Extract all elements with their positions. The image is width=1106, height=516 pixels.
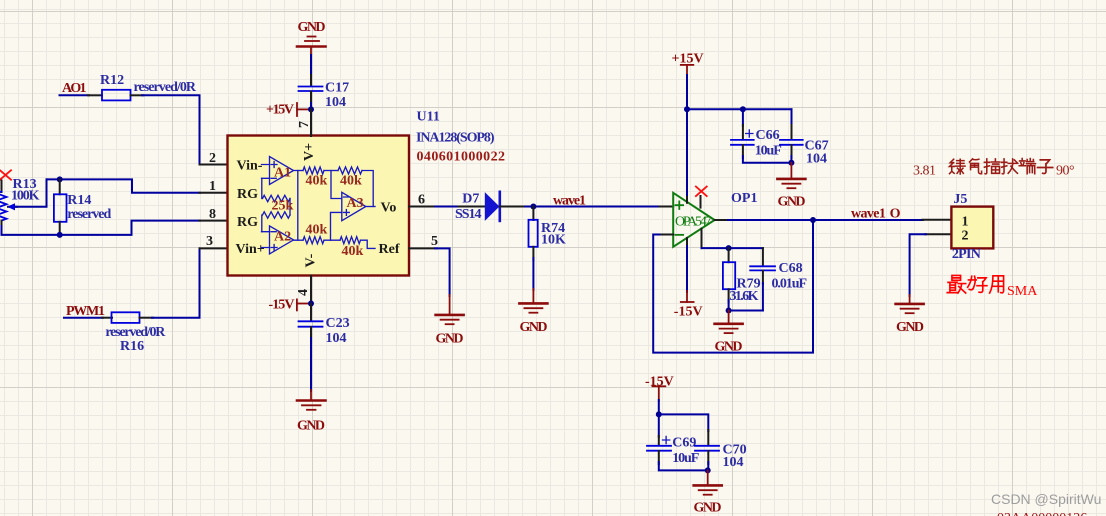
svg-text:104: 104 [806, 152, 827, 167]
resistor 40k (bottom-left) [298, 223, 328, 244]
wire bottom row to pin 8 [2, 221, 201, 235]
svg-text:C17: C17 [325, 81, 349, 96]
svg-text:A3: A3 [347, 196, 364, 211]
junction node pin7/+15V [308, 106, 314, 112]
svg-text:C69: C69 [672, 435, 696, 450]
wire pin6 to D7 [435, 206, 460, 208]
svg-text:R16: R16 [120, 339, 144, 354]
wire OP1 output to J5 [728, 219, 923, 221]
junction R79 bottom [726, 308, 732, 314]
wire between top 40k pair [324, 170, 338, 172]
wire wiper to top row [16, 179, 47, 206]
resistor R12 reserved/0R [88, 73, 197, 100]
svg-text:OP1: OP1 [731, 191, 757, 206]
wire bottom 40k to Ref [361, 240, 376, 248]
no-ERC marker (R13 top) [0, 170, 11, 179]
capacitor C68 0.01uF [750, 248, 807, 310]
svg-text:PWM1: PWM1 [66, 304, 105, 319]
capacitor C17 [299, 75, 350, 110]
svg-text:SMA: SMA [1007, 284, 1038, 299]
svg-text:3: 3 [206, 234, 213, 249]
junction R14 top [57, 176, 63, 182]
svg-text:C23: C23 [326, 316, 350, 331]
svg-text:SS14: SS14 [455, 207, 482, 222]
resistor R79 31.6K [723, 248, 761, 304]
junction R14 bottom [57, 232, 63, 238]
resistor R74 10K [529, 207, 567, 261]
svg-text:GND: GND [778, 194, 806, 209]
wire R12 to U11 pin 2 [142, 95, 200, 164]
pin 1 stub [200, 192, 228, 194]
svg-text:104: 104 [326, 331, 347, 346]
wire A3 plus to lower row [331, 212, 342, 240]
wire PWM1 [64, 317, 103, 319]
resistor 40k (bottom-right) [340, 237, 364, 259]
wire AO1 [60, 94, 90, 96]
svg-text:-15V: -15V [269, 298, 295, 313]
svg-text:104: 104 [723, 455, 744, 470]
wire R79/C68 bottom row [729, 300, 763, 311]
junction C70 bottom [705, 467, 711, 473]
power port -15V (at U11 pin 4) [269, 298, 309, 313]
capacitor C70 104 [695, 430, 747, 470]
pin 5 stub (right) [409, 247, 437, 249]
svg-text:CSDN @SpiritWu: CSDN @SpiritWu [991, 491, 1101, 507]
wire GND to C17 [310, 55, 312, 76]
wire OP1 lower pin to node row [702, 247, 763, 249]
svg-text:2PIN: 2PIN [952, 247, 981, 262]
svg-text:Vin-: Vin- [237, 158, 263, 173]
note CJK glyphs: 最好用 [947, 275, 1003, 293]
wire top-right 40k to Vo node [362, 171, 373, 207]
junction wave1 node [530, 204, 536, 210]
junction R79 top [726, 245, 732, 251]
svg-text:A1: A1 [274, 166, 291, 181]
wire cap bottoms [743, 156, 792, 163]
wire -15V to C69 node [658, 400, 660, 414]
pin 4 stub (bottom) [310, 276, 312, 304]
svg-text:R14: R14 [67, 193, 91, 208]
capacitor C66 10uF [731, 109, 782, 158]
wire J5 pin2 to ground [910, 234, 926, 296]
ground (below C69/C70) [694, 470, 722, 515]
junction C69 top [656, 411, 662, 417]
wire top row to pin 1 [47, 179, 201, 192]
resistor R14 reserved [54, 179, 112, 235]
svg-text:104: 104 [325, 95, 346, 110]
svg-text:Ref: Ref [379, 242, 400, 257]
svg-text:C66: C66 [756, 128, 780, 143]
junction +15V node [684, 106, 690, 112]
svg-text:D7: D7 [462, 192, 479, 207]
svg-text:25k: 25k [272, 199, 294, 214]
svg-text:10uF: 10uF [672, 451, 699, 466]
wire R16 to U11 pin 3 [152, 248, 200, 317]
svg-text:+15V: +15V [266, 102, 294, 117]
connector body J5 2PIN [922, 192, 993, 262]
svg-text:40k: 40k [342, 244, 364, 259]
capacitor C67 104 [780, 109, 829, 166]
op-amp A1 [262, 157, 294, 185]
ground (below R79) [715, 311, 743, 355]
ground (below C23) [297, 390, 326, 433]
svg-text:1: 1 [209, 179, 216, 194]
power port +15V (above OP1) [672, 52, 704, 76]
power port -15V (above C69) [645, 375, 674, 402]
junction node pin4/-15V [308, 301, 314, 307]
svg-text:40k: 40k [306, 223, 328, 238]
svg-text:2: 2 [209, 151, 216, 166]
wire R74 to ground [532, 258, 534, 290]
junction C66 top [740, 106, 746, 112]
svg-text:wave1: wave1 [553, 193, 586, 208]
svg-text:R12: R12 [100, 73, 124, 88]
pin 7 stub (top) [310, 109, 312, 136]
svg-text:2: 2 [962, 229, 969, 244]
svg-text:3.81: 3.81 [913, 164, 936, 179]
svg-text:OPA547: OPA547 [675, 215, 712, 230]
svg-text:GND: GND [436, 332, 464, 347]
svg-text:40k: 40k [306, 174, 328, 189]
svg-text:U11: U11 [417, 110, 440, 125]
resistor 40k (top-left) [298, 167, 328, 189]
wire cap bottoms to gnd node [659, 462, 709, 470]
junction feedback/output [810, 217, 816, 223]
wire between bottom 40k pair [324, 239, 340, 241]
svg-text:40k: 40k [340, 174, 362, 189]
wire +15V down to OP1 [686, 75, 688, 195]
svg-text:J5: J5 [953, 192, 967, 207]
resistor R16 reserved/0R [102, 312, 166, 354]
svg-text:1: 1 [962, 215, 969, 230]
ground (below pin 5) [436, 295, 464, 347]
wire mid node to A3 minus [331, 171, 342, 199]
svg-text:AO1: AO1 [62, 81, 87, 96]
op-amp OP1 OPA547 [660, 193, 730, 249]
wire top row to C70 [659, 414, 709, 431]
svg-text:RG: RG [237, 215, 258, 230]
svg-text:7: 7 [297, 121, 312, 128]
svg-text:INA128(SOP8): INA128(SOP8) [416, 130, 495, 145]
wire feedback loop [653, 220, 813, 353]
pin 2 stub [200, 164, 228, 166]
svg-text:reserved/0R: reserved/0R [105, 325, 166, 340]
pin 3 stub [200, 247, 228, 249]
svg-text:4: 4 [296, 289, 311, 296]
svg-text:GND: GND [694, 500, 722, 515]
pin 6 stub (right) [409, 206, 437, 208]
svg-text:040601000022: 040601000022 [417, 149, 506, 164]
op-amp A2 [262, 226, 294, 254]
svg-text:6: 6 [418, 192, 425, 207]
svg-text:V-: V- [304, 253, 319, 267]
internal gain resistors 25k [262, 178, 294, 231]
note 3.81 green terminal 90deg [913, 164, 1074, 179]
capacitor C69 10uF [647, 414, 699, 466]
note CJK glyphs: 绿色插拔端子 [950, 159, 1053, 174]
svg-text:GND: GND [297, 418, 325, 433]
ground (top, above C17) [297, 20, 326, 57]
svg-text:Vin+: Vin+ [236, 242, 265, 257]
svg-text:GND: GND [520, 320, 548, 335]
svg-text:wave1 O: wave1 O [851, 207, 901, 222]
ground (below R74) [519, 289, 547, 335]
capacitor C23 [299, 304, 350, 346]
diode D7 SS14 [455, 192, 526, 222]
svg-text:100K: 100K [11, 188, 40, 203]
ground (below C66/C67) [777, 163, 805, 210]
svg-text:reserved: reserved [67, 207, 111, 222]
svg-text:10K: 10K [541, 233, 566, 248]
resistor 40k (top-right) [338, 167, 362, 189]
no-ERC marker (OP1 top pin) [696, 187, 707, 197]
wire C23 to ground [310, 338, 312, 391]
wire pin5 to ground [435, 248, 450, 296]
ground (below J5) [896, 295, 924, 335]
wire A3 output to Vo [366, 206, 375, 208]
power port +15V (at U11 pin 7) [266, 102, 308, 117]
svg-text:RG: RG [237, 187, 258, 202]
op-amp A3 [342, 192, 366, 220]
svg-text:-15V: -15V [674, 304, 703, 319]
wire C17 to pin7 node [310, 103, 312, 136]
svg-text:90°: 90° [1056, 164, 1074, 179]
component body U11 [228, 136, 410, 276]
svg-text:31.6K: 31.6K [730, 289, 759, 304]
wire +15V node to caps [687, 108, 792, 110]
svg-text:10uF: 10uF [755, 144, 782, 159]
svg-text:GND: GND [298, 20, 326, 35]
svg-text:Vo: Vo [381, 200, 397, 215]
svg-text:0.01uF: 0.01uF [772, 276, 808, 291]
pin 8 stub [200, 220, 228, 222]
power port -15V (below OP1) [674, 246, 703, 319]
potentiometer R13 100K [0, 177, 40, 228]
svg-text:5: 5 [431, 234, 438, 249]
svg-text:reserved/0R: reserved/0R [134, 80, 197, 95]
svg-text:GND: GND [896, 320, 924, 335]
svg-text:03AA00000126: 03AA00000126 [997, 511, 1087, 516]
svg-text:C68: C68 [779, 261, 803, 276]
svg-text:V+: V+ [302, 143, 317, 161]
junction cap gnd node [788, 160, 794, 166]
wire D7 to wave1 node [525, 206, 660, 208]
wire A1/A2 outputs vertical [294, 171, 298, 241]
svg-text:A2: A2 [274, 230, 291, 245]
svg-text:8: 8 [209, 207, 216, 222]
